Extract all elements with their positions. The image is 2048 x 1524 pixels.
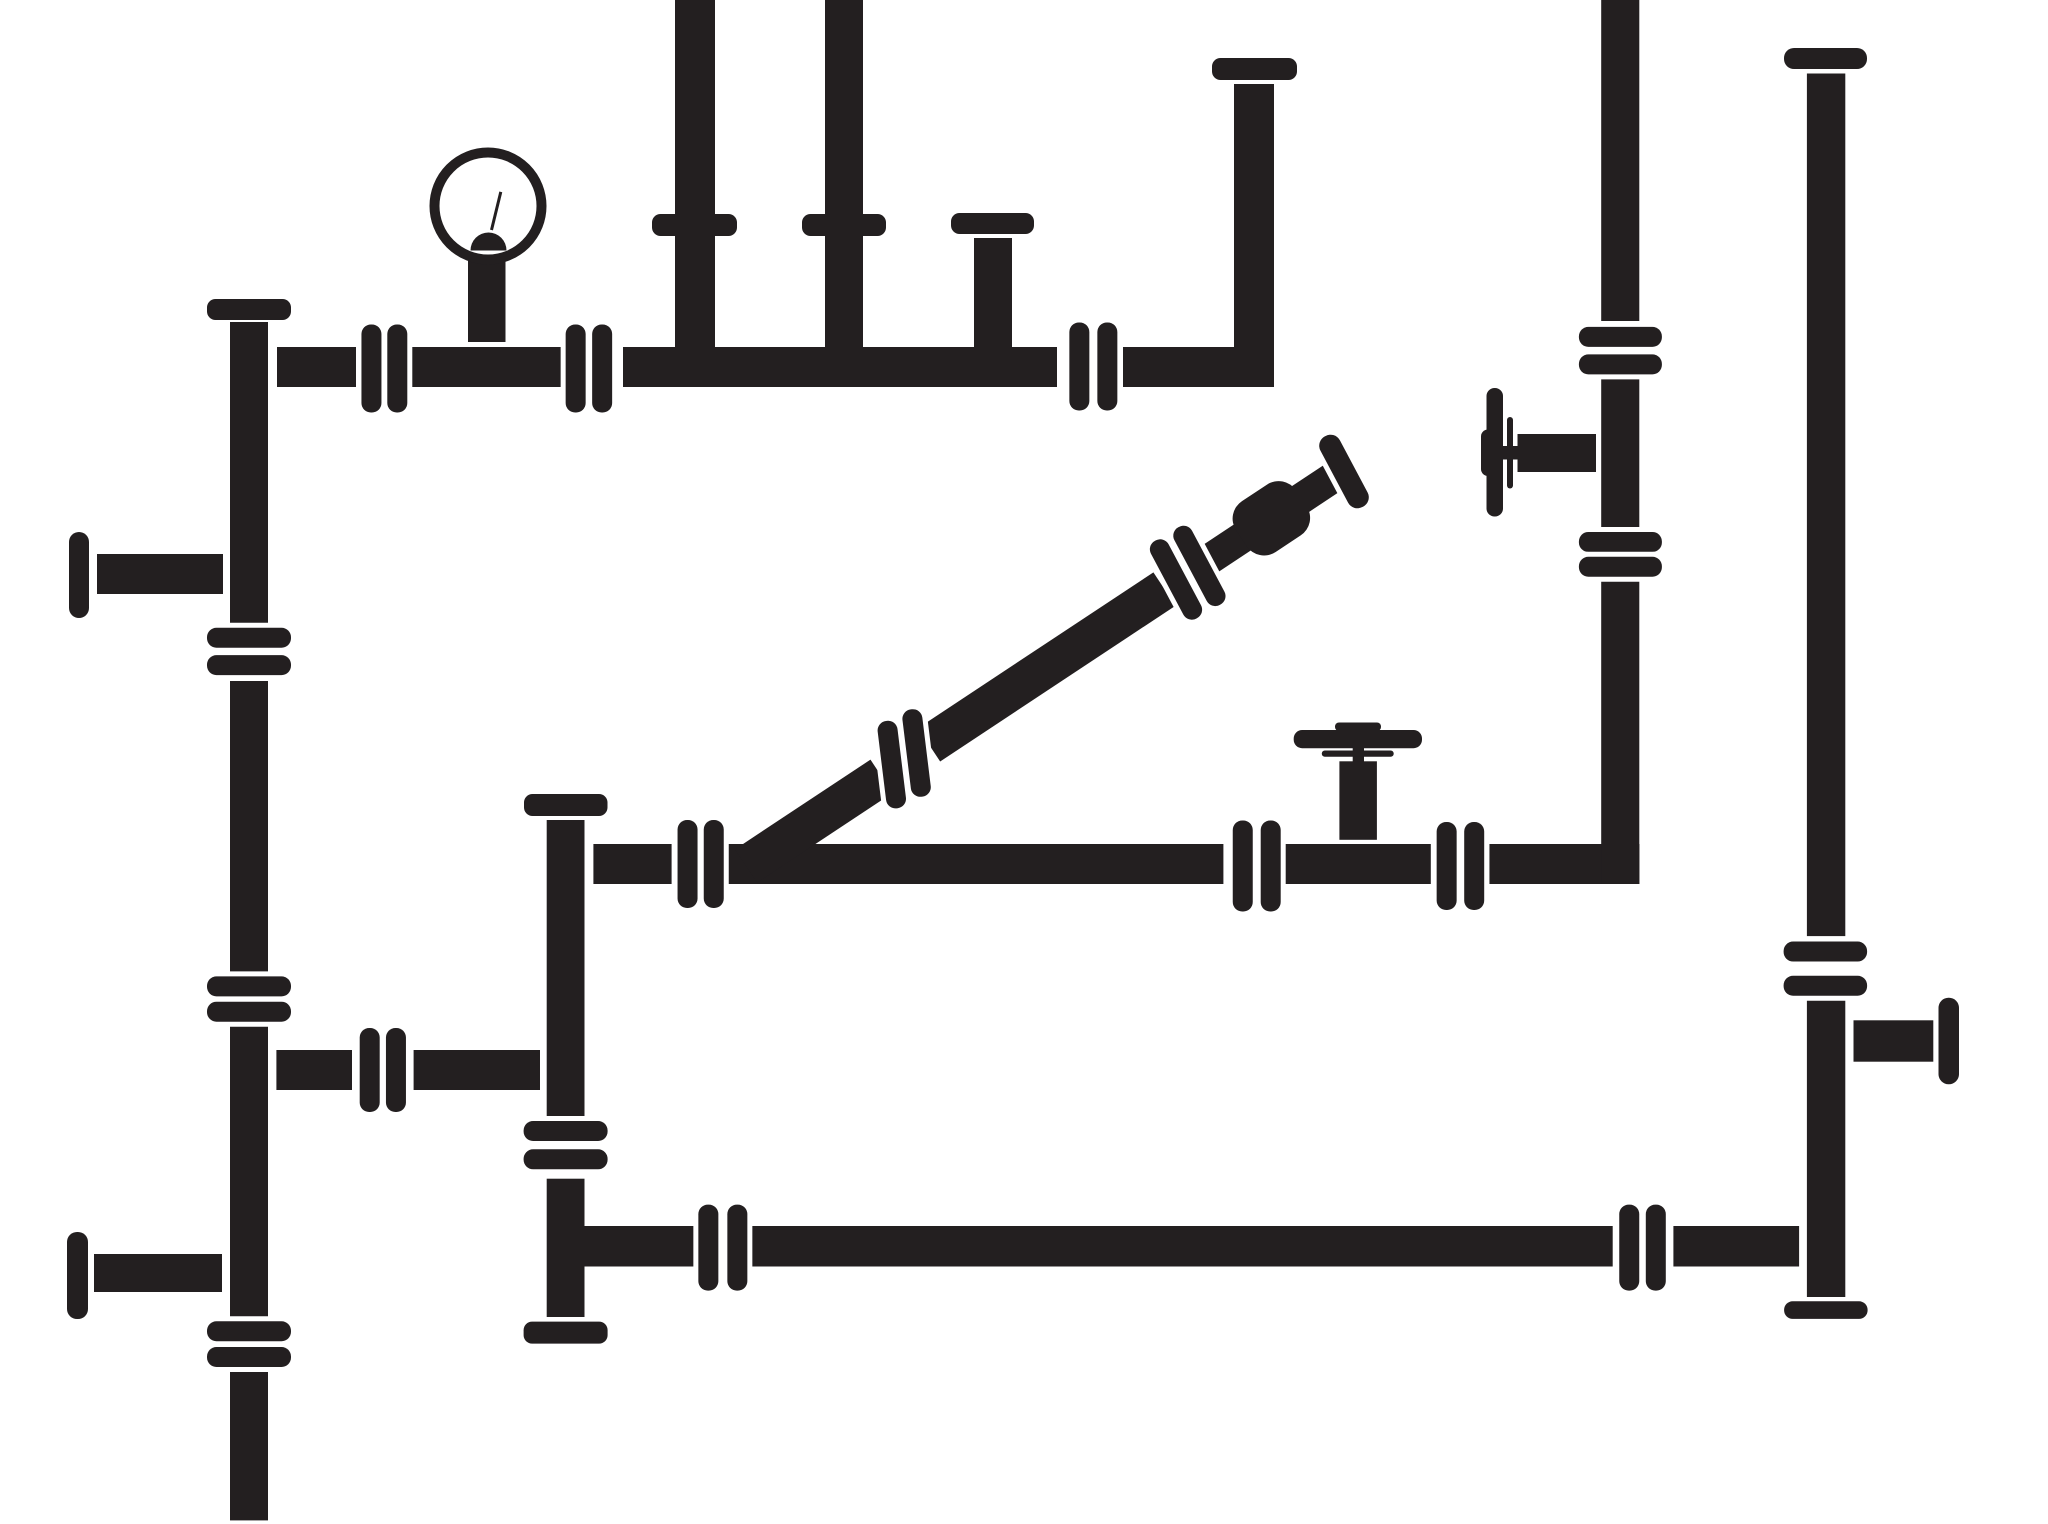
flange coupling pair, middle vertical (top ring) [519,1116,613,1146]
flange coupling pair, left vertical lower (top ring) [202,1316,296,1346]
pipe, lower-left stub [94,1254,222,1292]
collar flange on riser 1 [652,214,737,236]
end cap, header elbow riser [1212,58,1297,80]
pipe, right vertical segment 2 [1807,1000,1845,1297]
pipe, top header segment 2 [412,347,561,387]
check valve body [1224,473,1318,564]
pipe, middle vertical segment 1 [547,820,585,1117]
flange coupling pair, left vertical upper (bottom ring) [202,650,296,680]
flange coupling pair, diagonal lower (right ring) [896,703,938,804]
flange coupling pair 2, top header (left ring) [561,320,591,418]
flange coupling pair 1, top header (left ring) [356,320,386,418]
pipe, right-mid vertical to middle-run elbow [1601,379,1639,884]
flange coupling pair 2, top header (right ring) [587,320,617,418]
end cap, right side stub [1939,998,1960,1084]
valve V2 handwheel bar [1294,730,1422,748]
flange coupling pair, diagonal upper (left ring) [1140,529,1212,630]
flange coupling pair 1, bottom run (left ring) [693,1200,723,1296]
pipe, left vertical segment 4 [230,1372,268,1521]
pipe, upper-left stub [97,554,223,594]
pipe, middle run segment 2 (Y junction) [728,844,1223,884]
flange coupling pair, diagonal lower (left ring) [871,714,913,815]
pipe, left vertical segment 3 [230,1027,268,1318]
pressure gauge: stem [468,258,506,342]
flange coupling pair, mid-left connector (left ring) [355,1023,385,1117]
valve V1 (side view) hub plate [1481,430,1497,477]
pipe, middle vertical segment 2 [547,1179,585,1317]
flange coupling pair 3, top header (left ring) [1064,318,1094,416]
pipe, middle run segment 4 to elbow [1489,844,1639,884]
pressure gauge: needle [492,192,501,230]
end cap, riser 3 stub [951,213,1034,234]
pipe, top header segment 4 to elbow [1123,347,1274,387]
end cap flange, diagonal branch tip [1309,424,1380,518]
flange coupling pair 2, middle run (left ring) [1228,816,1258,917]
end cap, right vertical bottom [1784,1301,1868,1319]
flange coupling pair, right vertical (top ring) [1779,937,1873,967]
flange coupling pair 2, bottom run (left ring) [1614,1200,1644,1296]
diagonal branch pipe group (check valve run) [729,453,1349,892]
pipe, riser 2 to top edge [825,0,863,347]
pipe, bottom run segment 2 [1673,1226,1799,1267]
end cap, right vertical top [1784,48,1867,69]
flange coupling pair 1, middle run (right ring) [699,815,729,913]
pipe, riser 1 to top edge [675,0,715,347]
pipe, top header segment 1 [277,347,356,387]
flange coupling pair 2, middle run (right ring) [1256,816,1286,917]
flange coupling pair 1, middle run (left ring) [673,815,703,913]
pipe, middle run segment 1 [593,844,671,884]
flange coupling pair, right vertical (bottom ring) [1779,971,1873,1001]
flange coupling pair, left vertical middle (bottom ring) [202,997,296,1027]
flange coupling pair, right-mid vertical (top ring) [1574,322,1667,352]
pipe, right side stub [1854,1020,1934,1061]
valve V2 (top view) hub plate [1335,723,1381,732]
valve V1 stem connector [1500,446,1518,460]
pipe, riser 3 stub [974,238,1012,347]
valve V2 wheel rod [1322,751,1394,757]
valve V2 bonnet stub [1339,761,1377,840]
flange coupling pair, diagonal upper (right ring) [1163,516,1235,617]
flange coupling pair 1, top header (right ring) [382,320,412,418]
valve V1 bonnet stub [1518,434,1597,472]
pipe, right-mid vertical from top edge [1601,0,1639,321]
pipe, left vertical segment 2 [230,681,268,973]
pipe, bottom run segment 1 (T at middle riser) [565,1226,1613,1267]
end cap, lower-left stub [67,1232,88,1319]
pipe, header elbow riser [1234,84,1274,387]
flange coupling pair 3, middle run (left ring) [1432,817,1462,915]
pipe, left vertical segment 1 [230,322,268,623]
valve V2 stem connector [1353,744,1364,762]
end cap, left riser top [207,299,291,320]
pipe, mid-left connector segment 1 [276,1050,352,1090]
pipe, mid-left connector segment 2 [414,1050,540,1090]
pipe, top header segment 3 [623,347,1057,387]
end cap, middle riser top [524,794,608,816]
flange coupling pair, left vertical middle (top ring) [202,971,296,1001]
flange coupling pair 3, middle run (right ring) [1459,817,1489,915]
end cap, upper-left stub [69,532,89,618]
collar flange on riser 2 [802,214,886,236]
flange coupling pair 2, bottom run (right ring) [1641,1200,1671,1296]
valve V1 wheel rod [1507,417,1513,489]
flange coupling pair, left vertical upper (top ring) [202,623,296,653]
flange coupling pair 3, top header (right ring) [1092,318,1122,416]
pressure gauge: dial bezel [435,153,542,260]
flange coupling pair, right-mid vertical (bottom ring) [1574,349,1667,379]
pressure gauge: hub half-disc [471,233,507,251]
pipe, middle run segment 3 [1286,844,1431,884]
flange coupling pair 1, bottom run (right ring) [722,1200,752,1296]
flange coupling pair, mid-left connector (right ring) [381,1023,411,1117]
flange coupling pair, left vertical lower (bottom ring) [202,1342,296,1372]
flange coupling pair 2, right-mid vertical (top ring) [1574,527,1667,557]
pipe, right vertical segment 1 [1807,74,1845,937]
flange coupling pair 2, right-mid vertical (bottom ring) [1574,552,1667,582]
valve V1 handwheel bar [1487,388,1504,517]
flange coupling pair, middle vertical (bottom ring) [519,1144,613,1174]
end cap, middle riser bottom [524,1322,608,1344]
